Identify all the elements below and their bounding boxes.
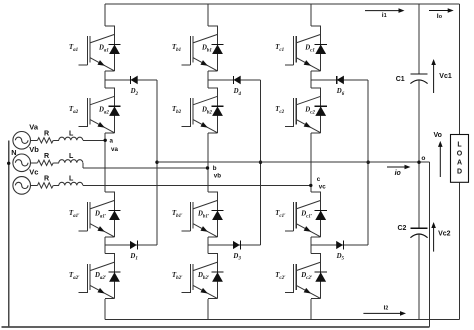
- DC link wire bottom: [418, 234, 420, 319]
- capacitor C1: [410, 73, 427, 75]
- leg b main line segments: [207, 4, 209, 26]
- neutral bus left wire: [8, 140, 10, 327]
- node o junction dot: [417, 161, 420, 164]
- clamping diode D4: [208, 79, 261, 81]
- anti-parallel diode Db2: [211, 105, 223, 107]
- clamping diode D3: [208, 244, 261, 246]
- svg-text:Va: Va: [29, 122, 39, 131]
- DC link wire mid: [418, 80, 420, 228]
- anti-parallel diode Da2: [108, 105, 120, 107]
- svg-text:Vb: Vb: [29, 145, 39, 154]
- anti-parallel diode Da1′: [108, 209, 120, 211]
- svg-text:va: va: [111, 146, 118, 153]
- svg-text:b: b: [213, 165, 217, 172]
- anti-parallel diode Dc1′: [315, 209, 327, 211]
- igbt cell wiring Tc1′: [311, 191, 321, 193]
- node c junction dot: [309, 184, 312, 187]
- capacitor C2: [410, 227, 427, 229]
- AC source Va: [13, 132, 31, 150]
- wire: [83, 184, 311, 186]
- svg-text:Vo: Vo: [434, 132, 442, 139]
- svg-text:i1: i1: [382, 12, 387, 19]
- anti-parallel diode Da2′: [108, 271, 120, 273]
- svg-text:R: R: [44, 152, 49, 160]
- resistor R (Vb phase): [38, 160, 54, 165]
- svg-text:o: o: [421, 155, 425, 162]
- svg-text:L: L: [69, 130, 74, 138]
- igbt cell wiring Tb2′: [208, 253, 218, 255]
- neutral return bottom wire: [2, 326, 430, 328]
- svg-text:Vc2: Vc2: [438, 231, 451, 238]
- wire: [53, 162, 59, 164]
- svg-text:c: c: [317, 176, 321, 183]
- voltage arrow Vc2: [433, 226, 435, 252]
- clamp rail leg a: [156, 80, 158, 245]
- DC link wire top: [418, 4, 420, 74]
- voltage arrow Vc1: [433, 63, 435, 93]
- igbt cell wiring Tb1: [208, 25, 218, 27]
- node N junction dot: [7, 162, 10, 165]
- igbt cell wiring Tb1′: [208, 191, 218, 193]
- igbt cell wiring Ta1: [105, 25, 115, 27]
- igbt cell wiring Tc2: [311, 87, 321, 89]
- svg-text:Vc1: Vc1: [439, 73, 452, 80]
- svg-text:O: O: [457, 150, 463, 157]
- resistor R (Vc phase): [38, 183, 54, 188]
- wire: [53, 184, 59, 186]
- svg-text:vc: vc: [319, 183, 326, 190]
- svg-text:R: R: [44, 175, 49, 183]
- wire: [82, 162, 84, 164]
- svg-text:L: L: [457, 141, 462, 148]
- svg-text:a: a: [110, 137, 114, 144]
- right edge wire bottom: [459, 182, 461, 319]
- clamping diode D6: [311, 79, 368, 81]
- igbt cell wiring Ta2: [105, 87, 115, 89]
- clamp rail leg b: [260, 80, 262, 245]
- resistor R (Va phase): [38, 138, 54, 143]
- node b junction dot: [206, 166, 209, 169]
- anti-parallel diode Db2′: [211, 271, 223, 273]
- wire: [83, 139, 105, 141]
- leg a main line segments: [104, 4, 106, 26]
- current arrow i2: [363, 312, 402, 314]
- svg-text:Io: Io: [437, 13, 443, 20]
- bottom DC rail: [105, 319, 460, 321]
- neutral mid line to node o: [157, 161, 430, 163]
- right edge wire top: [459, 4, 461, 134]
- inductor L (Vb phase): [59, 160, 83, 163]
- svg-text:i2: i2: [384, 305, 389, 312]
- clamping diode D5: [311, 244, 368, 246]
- igbt cell wiring Tc1: [311, 25, 321, 27]
- svg-text:vb: vb: [214, 172, 221, 179]
- anti-parallel diode Dc2: [315, 105, 327, 107]
- svg-text:io: io: [395, 170, 402, 177]
- junction dot rail a x neutral line: [155, 161, 158, 164]
- anti-parallel diode Dc1: [315, 43, 327, 45]
- svg-text:L: L: [69, 152, 74, 160]
- AC source Vb: [13, 154, 31, 172]
- svg-text:C1: C1: [396, 76, 405, 83]
- AC source Vc: [13, 177, 31, 195]
- svg-text:Vc: Vc: [29, 167, 38, 176]
- igbt cell wiring Ta1′: [105, 191, 115, 193]
- anti-parallel diode Db1′: [211, 209, 223, 211]
- wire: [31, 162, 38, 164]
- svg-text:A: A: [457, 160, 462, 167]
- svg-text:D: D: [457, 169, 462, 176]
- wire: [31, 139, 38, 141]
- svg-text:C2: C2: [398, 225, 407, 232]
- anti-parallel diode Db1: [211, 43, 223, 45]
- svg-text:R: R: [44, 130, 49, 138]
- current arrow Io: [429, 10, 450, 12]
- igbt cell wiring Tb2: [208, 87, 218, 89]
- svg-text:L: L: [69, 175, 74, 183]
- anti-parallel diode Da1: [108, 43, 120, 45]
- current arrow io: [387, 166, 407, 168]
- top DC rail: [105, 3, 460, 5]
- igbt cell wiring Ta2′: [105, 253, 115, 255]
- igbt cell wiring Tc2′: [311, 253, 321, 255]
- wire: [53, 139, 59, 141]
- clamp rail leg c: [367, 80, 369, 245]
- clamping diode D1: [105, 244, 157, 246]
- svg-text:N: N: [11, 148, 16, 157]
- junction dot rail b x neutral line: [259, 161, 262, 164]
- LOAD box: [451, 135, 469, 183]
- current arrow i1: [365, 10, 401, 12]
- leg c main line segments: [310, 4, 312, 26]
- voltage arrow Vo: [439, 145, 441, 177]
- clamping diode D2: [105, 79, 157, 81]
- junction dot rail c x neutral line: [367, 161, 370, 164]
- node a junction dot: [104, 139, 107, 142]
- neutral return drop wire: [429, 162, 431, 327]
- anti-parallel diode Dc2′: [315, 271, 327, 273]
- inductor L (Vc phase): [59, 182, 83, 185]
- wire: [31, 184, 38, 186]
- inductor L (Va phase): [59, 137, 83, 140]
